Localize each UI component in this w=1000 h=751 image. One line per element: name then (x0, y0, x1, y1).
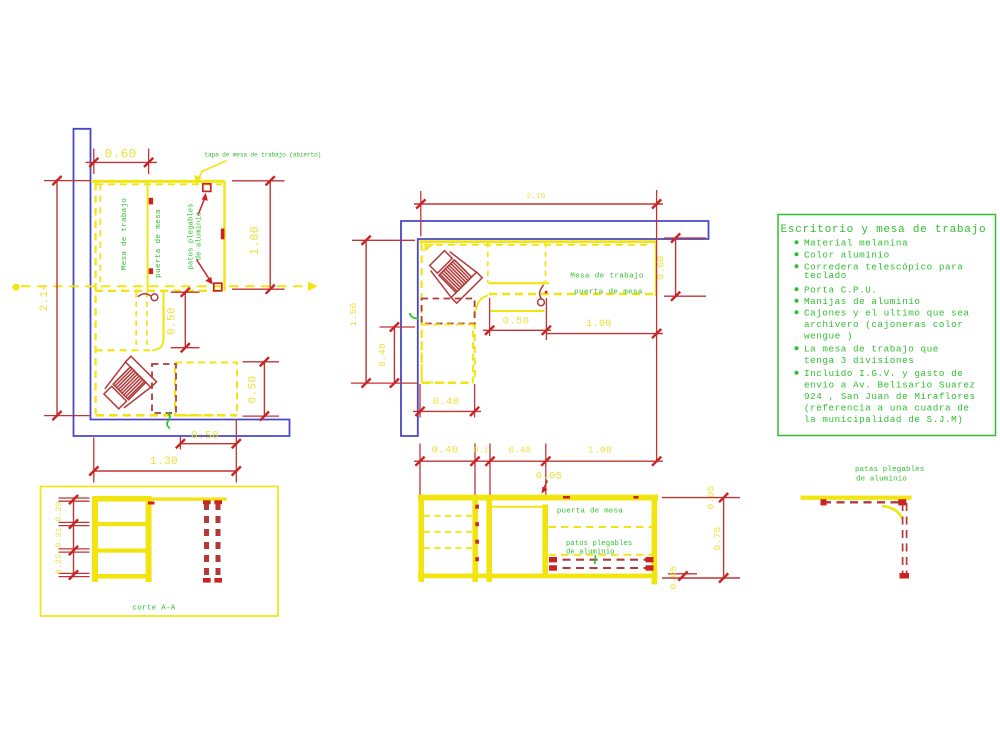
plan1 door swing arc (138, 294, 151, 297)
plan1 keyboard tray verticals (135, 292, 137, 349)
svg-text:1.00: 1.00 (249, 226, 262, 255)
plan1 right edge mark (221, 229, 225, 240)
svg-text:0.40: 0.40 (509, 446, 532, 456)
elevation dashed shelf line (549, 526, 653, 528)
plan2 dim 1.50 left (352, 239, 415, 241)
plan1 desk divider puerta (147, 181, 149, 291)
plan2 keyboard tray (489, 282, 550, 284)
detail folded leg dashed horizontal (823, 501, 906, 503)
svg-text:Manijas de aluminio: Manijas de aluminio (804, 296, 920, 307)
svg-text:0.05: 0.05 (536, 471, 563, 483)
plan2 corner arc (476, 296, 488, 311)
spec box body text (795, 240, 799, 244)
corte right post (146, 496, 152, 582)
corte red mark (148, 502, 155, 505)
plan1 dim 0.50 lower right (243, 361, 280, 363)
svg-text:0.50: 0.50 (167, 307, 179, 335)
svg-text:Mesa de trabajo: Mesa de trabajo (570, 273, 644, 281)
corte dim chain (73, 499, 75, 576)
plan1 door swing circle (151, 294, 158, 301)
plan1 desk left edge dashed (94, 183, 96, 414)
elevation dim line row (414, 460, 663, 462)
svg-text:puerta de mesa: puerta de mesa (557, 508, 624, 516)
plan1 desk bottom dashed (96, 414, 238, 417)
svg-text:corte A-A: corte A-A (132, 605, 175, 613)
svg-text:0.40: 0.40 (377, 343, 388, 367)
plan2 desk bottom dashed (422, 382, 473, 384)
plan1 keyboard tray right edge (162, 292, 164, 341)
plan1 lower-right dashed box (175, 363, 237, 416)
plan1 hinge arrow bottom (197, 260, 210, 280)
plan1 desk top inner dashed (96, 183, 222, 185)
corte bottom shelf (92, 574, 152, 579)
svg-text:puerta de mesa: puerta de mesa (155, 209, 163, 278)
elevation dashed line 2 (549, 554, 653, 556)
detail leg cap bottom (900, 573, 910, 579)
svg-text:1.00: 1.00 (588, 445, 612, 456)
elevation right dim 0.05 top (662, 497, 740, 499)
plan2 desk right edge (655, 242, 657, 296)
plan1 tray corner arc (152, 341, 164, 350)
svg-text:0.25: 0.25 (55, 554, 64, 574)
elevation mid post (472, 501, 478, 583)
svg-text:Porta C.P.U.: Porta C.P.U. (804, 285, 878, 296)
plan2 desk top edge (420, 240, 657, 243)
plan1 green squiggle (167, 413, 170, 429)
corte top surface (92, 496, 152, 502)
spec box border (778, 215, 996, 436)
svg-text:0.60: 0.60 (656, 255, 667, 279)
plan2 dim 1.00 (546, 333, 663, 335)
svg-text:0.60: 0.60 (104, 147, 136, 162)
detail leg dashed vertical (902, 503, 904, 576)
elevation hinge marks on top (563, 496, 570, 499)
plan1 centerline right arrow (308, 282, 318, 292)
plan2 green squiggle (410, 313, 419, 319)
svg-text:envio a Av. Belisario Suarez: envio a Av. Belisario Suarez (804, 380, 976, 391)
plan2 desk left edge dashed (421, 243, 423, 382)
svg-text:teclado: teclado (804, 270, 847, 281)
elevation far right leg (652, 501, 658, 585)
svg-text:tenga 3 divisiones: tenga 3 divisiones (804, 355, 914, 366)
plan2 desk bottom of horizontal part dashed (489, 293, 656, 295)
corte left post (92, 496, 98, 582)
elevation right dim 0.75 (723, 498, 725, 578)
plan1 desk right edge (223, 181, 225, 291)
plan1 dim 1.30 bottom (93, 438, 95, 483)
plan1 hinge arrow top (198, 198, 205, 215)
plan1 dim 0.50 bottom (179, 437, 181, 450)
svg-text:1.00: 1.00 (586, 319, 612, 330)
plan1 dim 2.14 left (44, 180, 90, 182)
svg-text:0.50: 0.50 (191, 431, 219, 443)
plan2 CPU dashed box (422, 299, 475, 324)
svg-text:La mesa de trabajo que: La mesa de trabajo que (804, 344, 939, 355)
svg-text:patos plegables: patos plegables (566, 540, 632, 548)
elevation post3 (486, 501, 492, 583)
svg-text:de aluminio: de aluminio (196, 212, 204, 261)
detail leg caps horizontal (821, 499, 827, 505)
plan2 door swing arc (540, 285, 544, 299)
elevation leg end caps (549, 557, 557, 562)
svg-text:Material melanina: Material melanina (804, 238, 908, 249)
plan1 dim 0.60 top (93, 149, 95, 175)
svg-text:archivero (cajoneras color: archivero (cajoneras color (804, 319, 963, 330)
plan1 chair (99, 356, 157, 414)
svg-text:0.50: 0.50 (503, 316, 530, 328)
plan1 dim 0.50 middle (171, 291, 200, 293)
svg-text:puerta de mesa: puerta de mesa (574, 289, 643, 297)
plan2 lower dashed box (422, 325, 474, 383)
svg-text:tapa de mesa de trabajo (abier: tapa de mesa de trabajo (abierto) (205, 152, 322, 159)
svg-text:wengue ): wengue ) (804, 331, 853, 342)
plan2 desk vertical part right dashed (474, 310, 476, 382)
svg-text:0.50: 0.50 (248, 375, 260, 403)
elevation right dim 0.05 bottom (668, 573, 697, 575)
plan2 desk top inner dashed (424, 244, 652, 246)
svg-text:0.31: 0.31 (55, 527, 64, 547)
svg-text:Color aluminio: Color aluminio (804, 250, 890, 261)
svg-text:0.29: 0.29 (55, 501, 64, 521)
plan1 lower section top dashed (96, 349, 151, 351)
plan1 desk left inner dashed (99, 184, 101, 288)
plan1 CPU dashed box (152, 364, 176, 413)
svg-text:Incluido I.G.V. y gasto de: Incluido I.G.V. y gasto de (804, 368, 963, 379)
svg-text:Mesa de trabajo: Mesa de trabajo (121, 198, 129, 270)
elevation bottom bar (418, 574, 658, 579)
plan2 dim 0.50 keyboard (489, 298, 491, 336)
plan1 dim 1.00 right (232, 180, 285, 182)
svg-text:924 , San Juan de Miraflores: 924 , San Juan de Miraflores (804, 391, 976, 402)
plan2 dim 0.40 bottom (419, 384, 421, 418)
svg-text:0.1: 0.1 (473, 447, 488, 456)
elevation tabletop (418, 495, 658, 501)
elevation extension lines (419, 444, 421, 498)
plan1 hinge square bottom (214, 283, 222, 291)
wall plan1 L-shape (74, 129, 290, 436)
detail swing arc (882, 506, 903, 519)
elevation drawer dashed lines (424, 515, 472, 517)
plan2 chair (424, 245, 482, 303)
corte legs dashed red (204, 503, 209, 582)
elevation folding legs dashed red (549, 559, 654, 561)
svg-text:patos plegables: patos plegables (188, 203, 196, 269)
elevation mid section top frame (492, 506, 542, 508)
svg-text:Cajones y el ultimo que sea: Cajones y el ultimo que sea (804, 308, 969, 319)
svg-text:(referencia a una cuadra de: (referencia a una cuadra de (804, 403, 969, 414)
elevation green tick (594, 555, 597, 564)
plan2 dim 2.10 top (420, 191, 422, 237)
plan1 centerline dashed (21, 285, 309, 287)
wall plan2 L-shape (401, 221, 709, 436)
corte shelf 2 (92, 549, 152, 553)
plan1 door handle marks (149, 198, 153, 205)
svg-text:patas plegables: patas plegables (855, 466, 925, 474)
svg-text:la municipalidad de S.J.M): la municipalidad de S.J.M) (804, 414, 963, 425)
plan2 dim 0.60 right (664, 237, 706, 239)
svg-text:0.40: 0.40 (432, 445, 459, 457)
svg-text:Escritorio y mesa de trabajo: Escritorio y mesa de trabajo (781, 224, 987, 236)
plan1 desk upper section bottom dashed (95, 290, 224, 292)
svg-text:0.75: 0.75 (712, 526, 723, 550)
plan2 divider dashed 1 (487, 242, 489, 283)
elevation inner right post (542, 505, 548, 575)
svg-text:0.40: 0.40 (433, 396, 460, 408)
elevation left post (418, 501, 424, 583)
elevation drawer handles (475, 505, 479, 509)
svg-text:2.10: 2.10 (526, 193, 545, 201)
svg-text:0.05: 0.05 (668, 565, 679, 589)
elevation right dim bottom tick (662, 577, 740, 579)
plan2 corner mark yellow (423, 244, 434, 251)
plan1 centerline left dot (12, 284, 19, 291)
plan2 dim 0.40 left (380, 326, 416, 328)
svg-text:0.05: 0.05 (706, 485, 717, 509)
plan2 door swing circle (538, 299, 545, 306)
detail tabletop bar (801, 496, 912, 500)
corte shelf 1 (92, 522, 152, 526)
plan2 tray hinge dot (545, 291, 548, 294)
svg-text:1.50: 1.50 (348, 302, 359, 326)
plan1 hinge square top (203, 184, 211, 192)
svg-text:1.30: 1.30 (150, 456, 178, 468)
corte leg caps (203, 500, 211, 504)
plan1 desk top edge (91, 180, 225, 183)
svg-text:2.14: 2.14 (39, 283, 51, 311)
svg-text:de aluminio: de aluminio (856, 476, 907, 484)
plan1 leader tapa de mesa (197, 161, 227, 183)
corte frame (41, 487, 279, 617)
